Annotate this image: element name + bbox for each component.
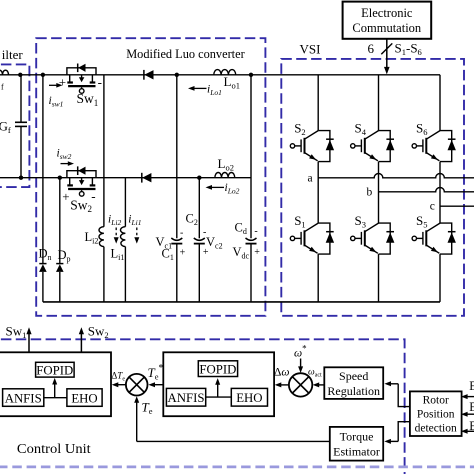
wire branch Li1: [124, 178, 126, 227]
svg-text:-: -: [91, 189, 95, 204]
VSI dashed box: [281, 59, 464, 316]
inductor Li1: [121, 227, 126, 247]
wire VSI leg 3 lower: [439, 254, 441, 302]
capacitor C2: [194, 238, 205, 240]
svg-text:f: f: [1, 83, 4, 92]
wire branch C1: [176, 75, 178, 239]
svg-text:ANFIS: ANFIS: [5, 391, 42, 405]
node Gf bottom on middle rail: [19, 176, 23, 180]
wire branch Cd / DC link: [250, 75, 252, 239]
node top rail to Cd branch: [249, 73, 253, 77]
inductor Lo2: [215, 172, 235, 177]
wire torque error into block1: [118, 384, 126, 386]
svg-text:Commutation: Commutation: [352, 21, 422, 35]
transistor Sw2 MOSFET body: [69, 178, 71, 185]
transistor S3 IGBT: [365, 223, 379, 232]
diode Dp: [56, 263, 63, 265]
svg-text:FOPID: FOPID: [36, 363, 73, 377]
block Electronic Commutation: [343, 2, 432, 39]
wire gate bus with arrow to VSI: [386, 39, 388, 67]
wire back-EMF input Eb: [467, 413, 474, 415]
wire phase a with hops: [318, 174, 474, 178]
node D1-Lo1 junction: [175, 73, 179, 77]
wire middle rail: [0, 177, 251, 179]
block FOPID (left): [36, 362, 75, 377]
summing junction torque: [126, 374, 148, 396]
MOSFET switch Sw1 body-diode bypass: [67, 68, 96, 75]
svg-text:+: +: [254, 247, 260, 258]
control unit dashed box: [0, 339, 405, 474]
wire arrow into FOPID (right): [217, 384, 219, 397]
wire omega_act from speed regulation: [319, 384, 325, 386]
svg-text:Torque: Torque: [340, 430, 374, 444]
wire ANFIS-EHO link (left): [44, 397, 67, 399]
wire Sw2 gate output arrow: [80, 334, 82, 353]
svg-text:-: -: [98, 75, 102, 90]
svg-text:-: -: [203, 227, 206, 238]
diode body diode of Sw2: [77, 166, 79, 175]
wire RPD to Torque Estimator: [398, 422, 410, 442]
svg-text:Modified Luo converter: Modified Luo converter: [126, 46, 245, 61]
svg-text:ilter: ilter: [2, 47, 24, 62]
wire phase c: [440, 205, 474, 207]
label iLo2 current arrow: [212, 186, 225, 188]
wire VSI leg 1 upper: [317, 75, 319, 131]
svg-text:E: E: [469, 400, 474, 414]
svg-text:E: E: [469, 419, 474, 433]
wire Te feedback into junction bottom: [136, 402, 138, 441]
wire VSI leg 3 upper: [439, 75, 441, 131]
wire arrow into FOPID (left): [54, 384, 56, 398]
label iLi2 dashed current arrow: [115, 228, 117, 239]
block control unit 2 (right): [163, 352, 274, 416]
svg-text:+: +: [62, 189, 69, 204]
svg-text:Electronic: Electronic: [361, 6, 413, 20]
svg-text:c: c: [430, 200, 435, 212]
wire phase b with hop: [379, 188, 474, 192]
svg-text:E: E: [469, 379, 474, 393]
transistor S6 IGBT: [426, 131, 440, 140]
svg-text:Rotor: Rotor: [423, 395, 449, 407]
bus slash mark: [381, 43, 392, 54]
wire bottom rail (negative DC bus): [43, 301, 440, 303]
svg-text:Δω: Δω: [274, 367, 290, 379]
wire Sw1 gate output arrow: [28, 334, 30, 353]
transistor S5 IGBT: [426, 223, 440, 232]
block EHO (left): [67, 389, 102, 407]
block Speed Regulation: [324, 367, 383, 399]
outer figure dashed border (cropped): [0, 466, 474, 469]
diode freewheeling of S4: [379, 131, 391, 162]
filter dashed box: [0, 64, 29, 187]
svg-text:Position: Position: [417, 409, 455, 421]
wire speed error into block2: [281, 384, 289, 386]
block FOPID (right): [198, 361, 237, 377]
wire VSI leg 3 middle: [439, 162, 441, 224]
svg-text:-: -: [254, 226, 257, 237]
wire omega* reference into junction: [300, 359, 302, 367]
diode freewheeling of S6: [440, 131, 452, 162]
block Rotor Position detection: [410, 391, 462, 436]
block ANFIS (right): [166, 388, 205, 406]
wire Torque Estimator output: [137, 440, 330, 442]
label iLi1 dashed current arrow: [136, 228, 138, 239]
diode body diode of Sw1: [77, 64, 79, 73]
diode freewheeling of S3: [379, 223, 391, 254]
transistor S4 IGBT: [365, 131, 379, 140]
svg-text:Speed: Speed: [339, 369, 368, 383]
diode Dn: [39, 263, 46, 265]
Modified Luo converter dashed box: [36, 38, 265, 316]
label isw2 current arrow: [61, 163, 69, 165]
capacitor Gf: [20, 75, 22, 122]
wire VSI leg 2 middle: [378, 162, 380, 224]
block EHO (right): [231, 388, 267, 406]
wire VSI leg 2 lower: [378, 254, 380, 302]
diode freewheeling of S2: [318, 131, 330, 162]
svg-text:6: 6: [368, 41, 375, 56]
wire top rail (positive DC bus): [0, 74, 440, 76]
transistor S1 IGBT: [305, 223, 319, 232]
block control unit 1 (left): [0, 352, 111, 416]
wire VSI leg 1 lower: [317, 254, 319, 302]
svg-text:FOPID: FOPID: [199, 362, 236, 376]
wire ANFIS-EHO link (right): [206, 396, 232, 398]
wire branch C2: [198, 178, 200, 239]
svg-text:a: a: [308, 173, 313, 185]
diode D2 on middle rail: [141, 173, 143, 183]
wire Te* from block2 into junction: [155, 384, 164, 386]
svg-text:-: -: [180, 228, 183, 239]
svg-text:VSI: VSI: [300, 42, 321, 57]
svg-text:Estimator: Estimator: [333, 445, 380, 459]
node Sw2 input: [58, 176, 62, 180]
summing junction speed: [289, 373, 312, 396]
svg-text:b: b: [367, 187, 373, 199]
svg-text:Regulation: Regulation: [327, 384, 380, 398]
block Torque Estimator: [330, 427, 383, 461]
inductor Lo1: [214, 70, 236, 75]
label iLo1 current arrow: [194, 87, 207, 89]
wire branch Dn from top rail: [42, 75, 44, 264]
svg-text:detection: detection: [415, 423, 457, 435]
capacitor C1: [171, 238, 182, 240]
capacitor Cd: [246, 238, 257, 240]
block ANFIS (left): [3, 389, 44, 407]
wire branch Li2: [103, 75, 105, 227]
node filter output on top rail: [18, 73, 22, 77]
transistor Sw1 MOSFET body: [69, 75, 71, 82]
wire back-EMF input Ea: [467, 396, 474, 398]
transistor S2 IGBT: [305, 131, 319, 140]
diode freewheeling of S5: [440, 223, 452, 254]
wire VSI leg 1 middle: [317, 162, 319, 224]
svg-text:EHO: EHO: [71, 391, 97, 405]
diode freewheeling of S1: [318, 223, 330, 254]
svg-text:EHO: EHO: [236, 391, 262, 405]
wire RPD to Speed Regulation: [398, 384, 410, 407]
svg-text:+: +: [59, 75, 66, 90]
wire VSI leg 2 upper: [378, 75, 380, 131]
svg-text:+: +: [180, 248, 186, 259]
node top rail Dn junction: [41, 73, 45, 77]
svg-text:Control Unit: Control Unit: [17, 441, 91, 456]
wire branch Dp from middle rail: [59, 178, 61, 264]
svg-text:ANFIS: ANFIS: [168, 391, 205, 405]
label isw1 current arrow: [49, 84, 57, 86]
node middle rail C2 branch: [197, 176, 201, 180]
inductor Li2: [99, 227, 104, 247]
svg-text:+: +: [203, 247, 209, 258]
wire back-EMF input Ec: [467, 430, 474, 432]
MOSFET switch Sw2 body-diode bypass: [67, 171, 96, 178]
diode D1 on top rail: [143, 70, 145, 80]
inductor Lf (cropped at left edge): [0, 70, 8, 75]
